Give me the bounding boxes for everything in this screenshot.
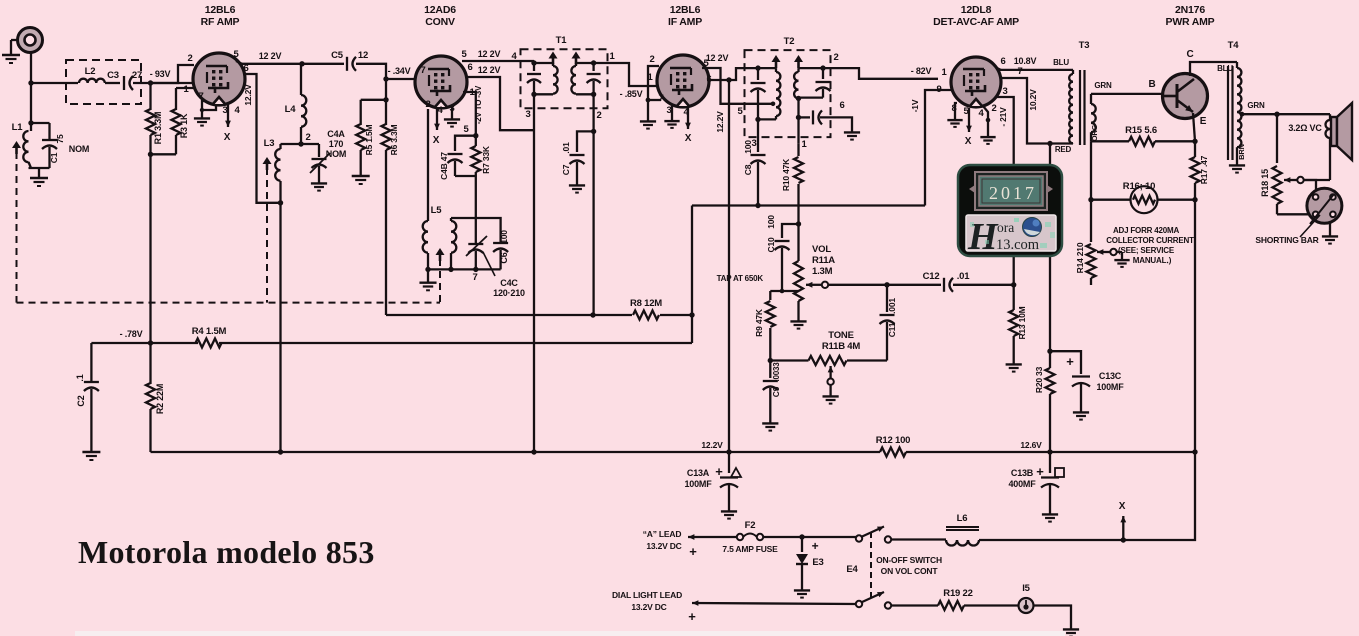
wire wiper out <box>828 284 887 286</box>
svg-text:400MF: 400MF <box>1008 479 1036 489</box>
pin6 wire V3 <box>707 79 729 81</box>
node R16 left <box>1088 197 1093 202</box>
ground (R11B) <box>829 385 831 391</box>
wire L3 line down <box>279 203 281 452</box>
svg-text:R4 1.5M: R4 1.5M <box>192 326 227 337</box>
svg-text:6: 6 <box>467 62 472 73</box>
resistor R17 .47 <box>1194 141 1196 157</box>
svg-text:3: 3 <box>666 105 671 116</box>
svg-text:100: 100 <box>499 230 509 244</box>
node osc junction <box>473 133 478 138</box>
wire fuse to switch <box>763 536 856 538</box>
svg-text:MANUAL․): MANUAL․) <box>1133 256 1172 265</box>
node R20 top <box>1047 349 1052 354</box>
capacitor C6 <box>499 250 501 269</box>
svg-text:L2: L2 <box>85 66 96 77</box>
wire T3 sec top <box>1091 93 1163 95</box>
svg-text:.0033: .0033 <box>772 362 781 382</box>
svg-text:+: + <box>812 539 819 553</box>
svg-text:R19 22: R19 22 <box>943 588 972 599</box>
pin2 wire V3 <box>648 66 659 116</box>
svg-text:100: 100 <box>766 215 776 229</box>
tube V4 12DL8 <box>951 57 1001 107</box>
svg-text:C: C <box>1186 49 1193 60</box>
ground (E3) <box>801 585 803 590</box>
svg-text:.001: .001 <box>887 298 897 314</box>
svg-text:- .85V: - .85V <box>620 89 643 99</box>
svg-text:9: 9 <box>936 84 941 95</box>
wire AVC line <box>692 204 925 206</box>
wire switch to L6 <box>891 538 946 540</box>
svg-text:ON VOL CONT: ON VOL CONT <box>881 566 939 576</box>
slug arrow T2b <box>794 55 803 62</box>
svg-text:6: 6 <box>1000 56 1005 67</box>
wire -.78V line <box>91 342 198 344</box>
node V3 plate <box>726 77 731 82</box>
svg-text:DET-AVC-AF AMP: DET-AVC-AF AMP <box>933 16 1019 28</box>
capacitor C13C <box>1050 351 1081 374</box>
node T1 p1 <box>531 60 536 65</box>
svg-text:R11B 4M: R11B 4M <box>822 341 860 352</box>
svg-text:12 2V: 12 2V <box>259 51 282 61</box>
node L3 bottom <box>278 200 283 205</box>
svg-text:- 93V: - 93V <box>150 69 171 79</box>
pin8 gnd V4 <box>955 103 957 115</box>
node C12 R13 <box>1011 282 1016 287</box>
dashed gang line L5 <box>439 259 441 303</box>
inductor L3 <box>279 144 281 149</box>
capacitor C3 <box>123 76 125 90</box>
svg-text:R8 12M: R8 12M <box>630 298 662 309</box>
wire L2-C3 <box>105 82 120 84</box>
svg-text:100MF: 100MF <box>684 479 712 489</box>
ground (V3 pin2-7) <box>647 116 649 121</box>
svg-text:NOM: NOM <box>69 144 89 154</box>
node R8 left <box>590 312 595 317</box>
node T1 s2 <box>591 92 596 97</box>
svg-text:2: 2 <box>305 132 310 143</box>
dashed box T1 <box>521 49 608 108</box>
pin7 wire V3 <box>648 99 661 101</box>
pin5 wire V3 <box>702 68 771 104</box>
svg-text:5: 5 <box>233 49 239 60</box>
wire C11 to tone <box>847 359 887 361</box>
pin 1 wire <box>176 87 196 89</box>
pin4 X arrow V3 <box>687 107 689 129</box>
inductor T2 secondary <box>797 68 799 72</box>
capacitor C13A <box>728 452 730 473</box>
wiper R11A <box>806 284 822 286</box>
wire A lead <box>688 536 737 538</box>
capacitor C8 <box>757 119 759 152</box>
svg-text:12: 12 <box>358 50 368 61</box>
ground (T4) <box>1236 160 1238 165</box>
wire L1C1 bottom <box>29 167 50 169</box>
svg-text:T2: T2 <box>784 36 795 47</box>
svg-text:X: X <box>965 136 972 147</box>
svg-text:I5: I5 <box>1022 583 1030 594</box>
svg-text:SHORTING BAR: SHORTING BAR <box>1255 235 1318 245</box>
pin2 osc wire <box>427 109 429 221</box>
svg-text:ora: ora <box>997 220 1014 235</box>
cathode pin7 wire <box>202 101 205 113</box>
slug arrow T1a <box>549 52 558 59</box>
wire antenna to L2 <box>31 82 78 84</box>
svg-text:7: 7 <box>472 272 477 283</box>
arrow X up <box>1122 516 1124 540</box>
ground (C7) <box>576 180 578 185</box>
pin5 plate wire V2 <box>462 60 534 62</box>
node T4 tap <box>1240 112 1245 117</box>
wire osc bottom <box>428 268 501 270</box>
plate wire to rail <box>240 63 302 65</box>
node AVC C8 <box>755 203 760 208</box>
svg-text:R6 3.3M: R6 3.3M <box>389 125 399 156</box>
resistor R4 1.5M <box>196 339 222 348</box>
resistor R16 10 <box>1131 186 1158 213</box>
svg-text:C10: C10 <box>766 237 776 252</box>
svg-text:1: 1 <box>609 51 615 62</box>
ground (L1) <box>38 168 40 172</box>
svg-text:1: 1 <box>183 84 189 95</box>
inductor T2 primary <box>758 67 776 69</box>
capacitor T2 primary <box>757 68 759 80</box>
node osc gnd 1 <box>425 267 430 272</box>
wire to C4A <box>301 143 319 145</box>
svg-text:B: B <box>1148 79 1155 90</box>
svg-text:X: X <box>685 133 692 144</box>
capacitor C7 <box>577 131 594 152</box>
ground (T2 pin6) <box>851 127 853 132</box>
node bus right <box>1192 449 1197 454</box>
ground (V2 pin3) <box>451 106 453 114</box>
svg-text:+: + <box>1066 354 1074 369</box>
svg-text:L5: L5 <box>431 205 443 216</box>
svg-text:5: 5 <box>461 49 467 60</box>
svg-text:E: E <box>1200 116 1207 127</box>
wire V3 plate to T2 <box>729 68 758 80</box>
slug arrow L3 <box>263 157 272 164</box>
node T2 s1 <box>820 65 825 70</box>
wire L6 out <box>979 539 1123 541</box>
capacitor C10 <box>782 224 799 238</box>
svg-text:- 82V: - 82V <box>911 66 932 76</box>
node antenna junction <box>28 80 33 85</box>
dashed link E4 <box>870 532 872 600</box>
label C4C <box>483 252 495 276</box>
node wiper C11 <box>884 282 889 287</box>
svg-text:ORG: ORG <box>1090 124 1099 141</box>
svg-text:100: 100 <box>743 140 753 154</box>
svg-text:3: 3 <box>1002 86 1007 97</box>
svg-text:ON-OFF SWITCH: ON-OFF SWITCH <box>876 555 942 565</box>
svg-text:+: + <box>715 464 723 479</box>
svg-text:R7 33K: R7 33K <box>481 145 491 174</box>
wire rail to C5 <box>302 63 344 65</box>
wire T1 pin3 down <box>533 94 535 452</box>
wiper R18 <box>1297 177 1303 183</box>
svg-text:GRN: GRN <box>1247 101 1265 110</box>
slug arrow L1 <box>12 141 21 148</box>
svg-text:2: 2 <box>187 53 192 64</box>
ground (C13B) <box>1049 509 1051 514</box>
wire C5 out <box>356 64 418 79</box>
svg-text:C4C: C4C <box>500 278 518 288</box>
dashed box T2 <box>745 50 831 137</box>
svg-text:C2: C2 <box>76 395 86 406</box>
wire R18 to plug <box>1277 213 1308 215</box>
svg-text:VOL: VOL <box>812 244 831 255</box>
inductor L5a <box>423 221 428 232</box>
svg-text:C11: C11 <box>887 322 897 337</box>
svg-text:C12: C12 <box>923 271 940 282</box>
slug arrow T2a <box>772 55 781 62</box>
ground (R5) <box>360 170 362 176</box>
transistor Q1 2N176 <box>1163 74 1208 119</box>
svg-text:C6: C6 <box>499 252 509 263</box>
speaker <box>1331 117 1337 146</box>
svg-text:12BL6: 12BL6 <box>205 4 236 16</box>
node T2 s2 <box>796 96 801 101</box>
ground (antenna) <box>11 39 18 41</box>
ground (C9) <box>769 418 771 423</box>
svg-text:CONV: CONV <box>425 16 455 28</box>
svg-text:2: 2 <box>833 52 838 63</box>
capacitor C5 <box>346 57 348 71</box>
svg-text:.01: .01 <box>957 271 971 282</box>
resistor R13 10M <box>1013 285 1015 310</box>
resistor R15 5.6 <box>1091 140 1129 142</box>
svg-text:R14 210: R14 210 <box>1075 242 1085 273</box>
wire R1R3 join <box>151 153 177 155</box>
svg-text:10.8V: 10.8V <box>1014 56 1037 66</box>
svg-text:4: 4 <box>978 108 984 119</box>
wire C3 out <box>133 82 193 84</box>
capacitor C11 <box>886 285 888 312</box>
pin4-2 wire V4 <box>983 106 988 132</box>
node T2 s3 <box>796 115 801 120</box>
ground (C4A) <box>318 178 320 183</box>
svg-text:R10 47K: R10 47K <box>781 158 791 191</box>
node X junction <box>1121 537 1126 542</box>
node 2 L4 bottom <box>298 141 303 146</box>
pin5 X arrow V4 <box>968 108 970 132</box>
wire T2 sec top <box>799 67 824 69</box>
node R17 R16 <box>1192 197 1197 202</box>
tube V1 12BL6 <box>193 53 245 105</box>
pin3 wire -21V <box>997 97 1014 285</box>
ground (plug) <box>1329 222 1331 231</box>
svg-text:T3: T3 <box>1079 40 1090 51</box>
inductor T3 primary <box>1072 70 1074 74</box>
svg-text:Motorola modelo 853: Motorola modelo 853 <box>78 534 375 570</box>
svg-text:GRN: GRN <box>1094 81 1112 90</box>
resistor R7 33K <box>475 136 477 146</box>
node T2 tap <box>771 102 776 107</box>
dashed gang line L3 <box>266 168 268 303</box>
pin3 wire <box>202 104 216 110</box>
capacitor C12 <box>943 278 945 292</box>
svg-text:170: 170 <box>329 139 344 149</box>
svg-text:C7: C7 <box>561 164 571 175</box>
node T1 p2 <box>531 92 536 97</box>
svg-text:DIAL LIGHT LEAD: DIAL LIGHT LEAD <box>612 590 682 600</box>
capacitor C4B 47 <box>455 136 476 151</box>
capacitor C2 <box>90 343 92 381</box>
svg-text:“A” LEAD: “A” LEAD <box>643 529 682 539</box>
svg-text:3: 3 <box>525 109 530 120</box>
slug arrow T1b <box>572 52 581 59</box>
dashed gang line L1 <box>16 152 18 303</box>
svg-text:13.2V DC: 13.2V DC <box>646 541 681 551</box>
switch E4 upper <box>856 535 862 541</box>
node osc gnd 3 <box>473 267 478 272</box>
svg-text:R15 5.6: R15 5.6 <box>1125 125 1157 136</box>
pin6 wire V4 <box>997 68 1001 70</box>
svg-text:T1: T1 <box>556 35 568 46</box>
svg-text:4: 4 <box>234 105 240 116</box>
svg-text:R12 100: R12 100 <box>876 435 911 446</box>
symbol square C13B <box>1055 468 1064 477</box>
wire wiper to plug <box>1304 180 1316 194</box>
wire R6 to R8 line <box>386 314 593 316</box>
svg-text:100MF: 100MF <box>1096 382 1124 392</box>
ground (V4 pin4) <box>987 132 989 137</box>
svg-text:2: 2 <box>649 54 654 65</box>
lamp I5 <box>1019 598 1034 613</box>
resistor R12 100 <box>880 448 906 457</box>
inductor L4 <box>300 64 302 95</box>
node -.78V <box>148 340 153 345</box>
ground (R11A) <box>797 316 799 321</box>
node T2 p1 <box>755 65 760 70</box>
svg-text:X: X <box>224 132 231 143</box>
capacitor T1 secondary <box>592 63 594 71</box>
svg-text:3: 3 <box>222 105 227 116</box>
svg-text:L4: L4 <box>285 104 297 115</box>
resistor R6 3.3M <box>385 100 387 125</box>
svg-text:X: X <box>1119 501 1126 512</box>
svg-text:7: 7 <box>658 93 663 104</box>
node bus C13B <box>1047 449 1052 454</box>
svg-text:C4B 47: C4B 47 <box>439 152 449 180</box>
wire R5 top <box>385 79 387 100</box>
svg-text:-1V: -1V <box>910 99 920 112</box>
node L1 junction <box>28 120 33 125</box>
svg-text:12.2V: 12.2V <box>243 84 253 106</box>
svg-text:F2: F2 <box>745 520 756 531</box>
ground (C2) <box>90 446 92 452</box>
wiper R14 <box>1097 251 1110 253</box>
ground (lamp) <box>1070 624 1072 629</box>
node bus C13A <box>726 449 731 454</box>
resistor R10 47K <box>797 143 799 156</box>
node T1 s1 <box>591 60 596 65</box>
svg-text:(SEE; SERVICE: (SEE; SERVICE <box>1118 246 1175 255</box>
potentiometer R11B TONE <box>809 356 847 365</box>
svg-text:L6: L6 <box>957 513 968 524</box>
badge 2017 Hora13 <box>958 165 1062 258</box>
node T2 p2 <box>755 117 760 122</box>
wire R1 down <box>149 154 151 343</box>
resistor R3 1K <box>175 88 177 110</box>
resistor R9 47K <box>769 291 771 300</box>
wire AVC riser <box>691 206 693 316</box>
svg-text:TONE: TONE <box>828 330 853 341</box>
core T4 <box>1227 66 1229 160</box>
core T3 <box>1079 70 1081 145</box>
svg-text:C8: C8 <box>743 164 753 175</box>
diode E3 <box>801 537 803 552</box>
svg-text:L3: L3 <box>264 138 275 149</box>
inductor T4 primary <box>1236 62 1238 68</box>
svg-text:RF AMP: RF AMP <box>201 16 240 28</box>
node grid junction <box>148 80 153 85</box>
svg-text:PWR AMP: PWR AMP <box>1166 16 1215 28</box>
svg-text:7.5 AMP FUSE: 7.5 AMP FUSE <box>722 544 778 554</box>
svg-text:R20 33: R20 33 <box>1034 366 1044 393</box>
tube V2 12AD6 <box>415 56 467 108</box>
dashed box antenna trimmer <box>66 60 141 104</box>
wire emitter <box>1193 113 1195 141</box>
svg-text:T4: T4 <box>1228 40 1240 51</box>
svg-text:- 21V: - 21V <box>998 107 1008 127</box>
svg-text:BRN: BRN <box>1237 144 1246 160</box>
svg-text:C13B: C13B <box>1011 468 1034 478</box>
fuse F2 <box>737 534 743 540</box>
node emitter <box>1192 139 1197 144</box>
wiper R11B <box>829 366 831 378</box>
wire bottom bus <box>151 451 881 453</box>
pin 2 wire <box>151 65 195 83</box>
wire 12.2V down <box>728 80 730 452</box>
svg-text:R18 15: R18 15 <box>1260 169 1270 197</box>
svg-text:2017: 2017 <box>989 183 1037 203</box>
wire switch to R19 <box>891 604 938 606</box>
node osc gnd 2 <box>448 267 453 272</box>
wire T2 pin1 <box>797 98 799 143</box>
wire to C1 <box>31 122 50 124</box>
svg-text:1: 1 <box>941 67 947 78</box>
wire L4 to L3 <box>281 143 302 145</box>
svg-text:R11A: R11A <box>812 255 835 266</box>
node R8 right <box>689 312 694 317</box>
wire C12 out <box>953 284 1014 286</box>
capacitor T2 secondary <box>822 68 824 79</box>
wire T1 pin1 out <box>594 63 657 86</box>
node R10 C10 <box>796 221 801 226</box>
node R9 C9 <box>768 358 773 363</box>
wire to speaker <box>1277 113 1330 115</box>
potentiometer R11A VOL <box>794 261 803 301</box>
capacitor C1 <box>42 139 57 141</box>
svg-text:12 2V: 12 2V <box>706 53 729 63</box>
svg-text:- .78V: - .78V <box>120 329 143 339</box>
pin6 wire V2 <box>466 77 534 130</box>
svg-text:C3: C3 <box>107 70 119 81</box>
svg-text:12 2V: 12 2V <box>478 65 501 75</box>
svg-text:12.2V: 12.2V <box>715 111 725 133</box>
svg-text:BLU: BLU <box>1053 58 1069 67</box>
svg-text:TAP AT 650K: TAP AT 650K <box>717 274 764 283</box>
antenna <box>18 28 43 53</box>
svg-text:120·210: 120·210 <box>493 288 525 298</box>
node C7 branch <box>591 129 596 134</box>
wire dial lead <box>692 603 856 604</box>
wire to C12 <box>887 284 941 286</box>
ground (V3 pin3) <box>671 106 673 116</box>
inductor L6 <box>946 540 957 546</box>
